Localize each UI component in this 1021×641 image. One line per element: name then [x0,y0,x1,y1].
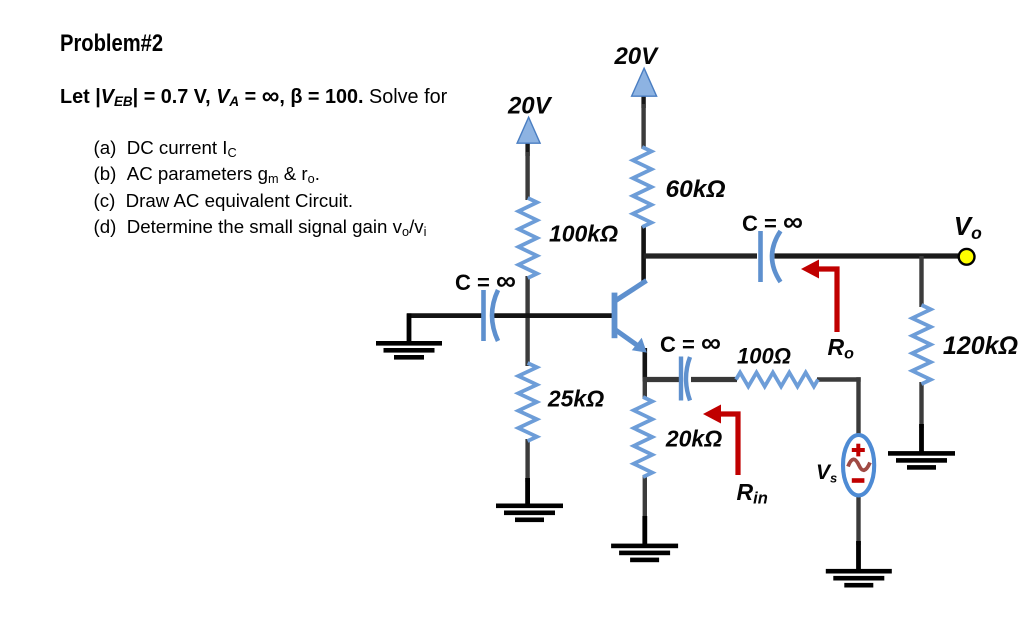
svg-text:Vo: Vo [954,211,982,243]
svg-text:C = ∞: C = ∞ [455,265,516,296]
svg-text:20V: 20V [507,93,553,120]
svg-text:100kΩ: 100kΩ [549,221,618,247]
svg-text:25kΩ: 25kΩ [547,386,604,412]
svg-text:C = ∞: C = ∞ [742,206,803,237]
svg-text:C = ∞: C = ∞ [660,327,721,358]
svg-text:120kΩ: 120kΩ [943,332,1018,360]
svg-text:Rin: Rin [737,479,768,508]
svg-text:20kΩ: 20kΩ [665,426,722,452]
svg-text:60kΩ: 60kΩ [665,176,725,203]
svg-text:Vs: Vs [816,461,837,486]
svg-text:100Ω: 100Ω [737,344,791,369]
svg-text:Ro: Ro [828,334,855,363]
svg-text:20V: 20V [613,43,659,70]
